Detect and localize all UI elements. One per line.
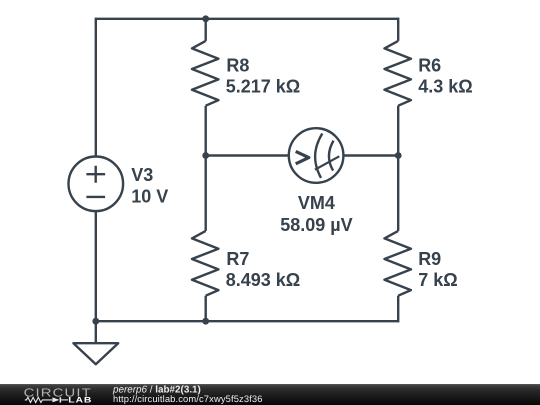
wire top horizontal	[96, 18, 398, 20]
voltmeter dial arc right	[329, 141, 334, 171]
wire voltmeter left lead	[206, 154, 289, 156]
wire bottom horizontal	[96, 320, 398, 322]
wire ground stem	[95, 321, 97, 343]
svg-text:58.09 µV: 58.09 µV	[280, 215, 352, 235]
voltmeter dial arc left	[315, 134, 322, 178]
logo diode symbol	[52, 397, 59, 402]
voltmeter arrow glyph	[296, 151, 309, 163]
resistor R7	[192, 231, 219, 296]
wire R8 bottom lead	[204, 106, 206, 156]
svg-text:VM4: VM4	[298, 193, 335, 213]
svg-text:http://circuitlab.com/c7xwy5f5: http://circuitlab.com/c7xwy5f5z3f36	[113, 393, 263, 404]
junction node top (R8 / top wire)	[202, 15, 209, 22]
wire R9 top lead	[397, 156, 399, 231]
svg-text:7 kΩ: 7 kΩ	[418, 270, 457, 290]
svg-text:4.3 kΩ: 4.3 kΩ	[418, 76, 472, 96]
wire V3 minus terminal to bottom node	[95, 211, 97, 321]
junction node middle right (R6/R9/voltmeter)	[395, 152, 402, 159]
svg-text:R9: R9	[418, 249, 441, 269]
wire voltmeter right lead	[344, 154, 398, 156]
wire R7 bottom lead	[204, 296, 206, 322]
resistor R8	[192, 41, 219, 106]
wire R6 top lead	[397, 18, 399, 41]
wire left vertical (top node to V3 plus terminal)	[95, 18, 97, 157]
resistor R9	[384, 231, 411, 296]
V3 minus sign	[86, 196, 105, 198]
svg-text:R8: R8	[226, 55, 249, 75]
wire R6 bottom lead	[397, 106, 399, 156]
svg-text:R6: R6	[418, 55, 441, 75]
wire R9 bottom lead	[397, 296, 399, 323]
voltage source V3 circle	[69, 157, 124, 212]
svg-text:V3: V3	[131, 165, 153, 185]
ground symbol triangle	[73, 343, 118, 364]
junction node ground	[92, 318, 99, 325]
svg-text:8.493 kΩ: 8.493 kΩ	[226, 270, 301, 290]
svg-text:5.217 kΩ: 5.217 kΩ	[226, 76, 301, 96]
voltmeter VM4 circle	[289, 128, 344, 183]
wire R8 top lead	[204, 19, 206, 41]
junction node bottom (R7 / bottom wire)	[202, 318, 209, 325]
voltmeter needle	[315, 156, 339, 169]
svg-text:10 V: 10 V	[131, 187, 168, 207]
logo resistor zigzag	[25, 397, 52, 402]
V3 plus sign	[86, 166, 105, 183]
junction node middle left (R8/R7/voltmeter)	[202, 152, 209, 159]
wire R7 top lead	[204, 156, 206, 231]
svg-text:LAB: LAB	[68, 395, 92, 404]
resistor R6	[384, 41, 411, 106]
footer bar	[0, 384, 540, 405]
svg-text:R7: R7	[226, 249, 249, 269]
